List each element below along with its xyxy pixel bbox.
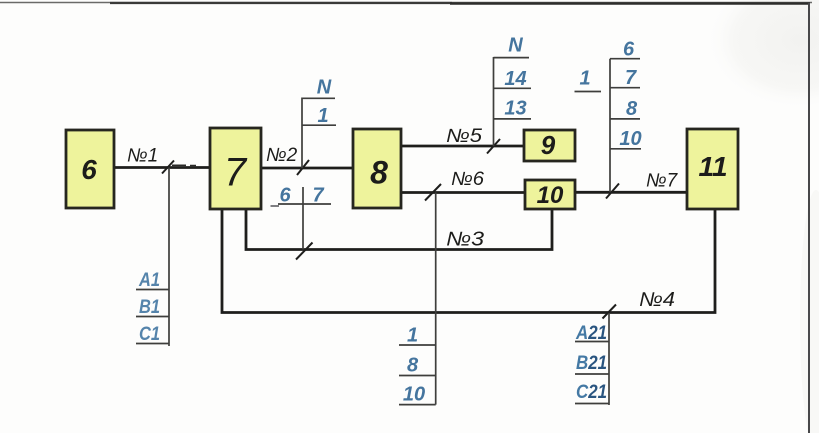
svg-text:1: 1 <box>317 105 328 127</box>
wire №2 <box>260 167 354 170</box>
svg-text:№3: №3 <box>446 229 484 251</box>
slash on wire №1 <box>162 161 174 174</box>
slash on wire №6 <box>425 184 441 201</box>
svg-text:B1: B1 <box>139 297 160 318</box>
underline 1 (left) <box>575 91 602 93</box>
svg-text:A21: A21 <box>575 323 607 344</box>
frame right border <box>808 3 810 433</box>
svg-text:10: 10 <box>619 128 641 150</box>
svg-text:10: 10 <box>537 182 564 209</box>
svg-text:№4: №4 <box>639 289 675 311</box>
svg-text:C1: C1 <box>139 324 160 345</box>
underline 7 <box>610 87 640 89</box>
stray dash left of 6 <box>271 205 280 207</box>
svg-text:№7: №7 <box>646 171 679 192</box>
wire №1 <box>114 166 211 169</box>
underline 8 <box>399 375 436 377</box>
slash on wire №7 <box>606 184 619 199</box>
block 8 <box>353 129 401 208</box>
slash on wire №2 <box>297 160 309 175</box>
svg-text:№6: №6 <box>451 169 484 190</box>
underline 6 7 <box>278 203 331 205</box>
underline A1 <box>136 289 169 291</box>
underline 10 <box>399 404 436 406</box>
svg-text:№2: №2 <box>266 145 298 166</box>
ladder A21 B21 C21 vertical (below №4) <box>608 313 610 405</box>
block 9 <box>524 130 575 161</box>
block 6 <box>66 130 114 208</box>
svg-text:11: 11 <box>698 151 727 182</box>
svg-text:№5: №5 <box>446 126 482 147</box>
ladder 1 8 10 vertical (below №6) <box>435 193 437 405</box>
ladder 6 7 vertical (above №3) <box>302 187 304 250</box>
underline 14 <box>494 87 532 89</box>
svg-text:6: 6 <box>623 39 635 61</box>
frame top border <box>0 3 812 4</box>
double stroke artifact on wire №1 <box>172 164 196 166</box>
ladder N 1 vertical (above №2) <box>301 98 303 169</box>
svg-text:1: 1 <box>407 325 418 347</box>
ladder N 14 13 vertical (above №5) <box>493 57 495 146</box>
wire №5 <box>400 145 525 148</box>
underline B1 <box>136 316 169 318</box>
svg-text:8: 8 <box>407 355 419 377</box>
underline C21 <box>575 403 609 405</box>
ladder 6 7 8 10 with 1 (above №7) vertical <box>609 59 611 193</box>
svg-text:7: 7 <box>625 67 637 89</box>
wire №4 <box>222 209 715 313</box>
svg-text:13: 13 <box>504 98 526 120</box>
svg-text:7: 7 <box>224 151 248 195</box>
underline 10 <box>610 148 641 150</box>
wire №6 <box>400 191 526 194</box>
underline 13 <box>494 118 532 120</box>
svg-text:C21: C21 <box>576 382 607 403</box>
svg-text:№1: №1 <box>127 146 158 167</box>
underline 1 <box>399 344 436 346</box>
underline 8 <box>610 118 640 120</box>
svg-text:N: N <box>508 35 523 57</box>
svg-text:10: 10 <box>403 384 425 406</box>
block 7 <box>210 128 261 209</box>
ladder A1 B1 C1 vertical <box>168 168 170 347</box>
underline N <box>302 97 335 99</box>
svg-text:7: 7 <box>312 185 324 207</box>
svg-text:6: 6 <box>279 185 291 207</box>
svg-text:9: 9 <box>541 130 556 160</box>
wire №7 <box>574 191 688 194</box>
underline N <box>494 57 530 59</box>
slash on wire №5 <box>487 139 500 154</box>
svg-text:B21: B21 <box>576 353 607 374</box>
underline B21 <box>575 373 609 375</box>
underline 6 <box>610 58 640 60</box>
svg-text:6: 6 <box>81 154 97 185</box>
svg-text:14: 14 <box>504 68 526 90</box>
underline C1 <box>136 343 169 345</box>
underline 1 <box>302 124 336 126</box>
slash on wire №3 <box>296 243 313 260</box>
wire №3 <box>246 209 552 250</box>
slash on wire №4 <box>603 305 617 319</box>
underline A21 <box>575 341 609 343</box>
svg-text:8: 8 <box>370 155 388 191</box>
svg-text:N: N <box>317 77 332 99</box>
block 11 <box>687 129 738 209</box>
svg-text:1: 1 <box>579 68 590 90</box>
block 10 <box>525 180 575 209</box>
svg-text:8: 8 <box>626 98 638 120</box>
svg-text:A1: A1 <box>138 270 160 291</box>
